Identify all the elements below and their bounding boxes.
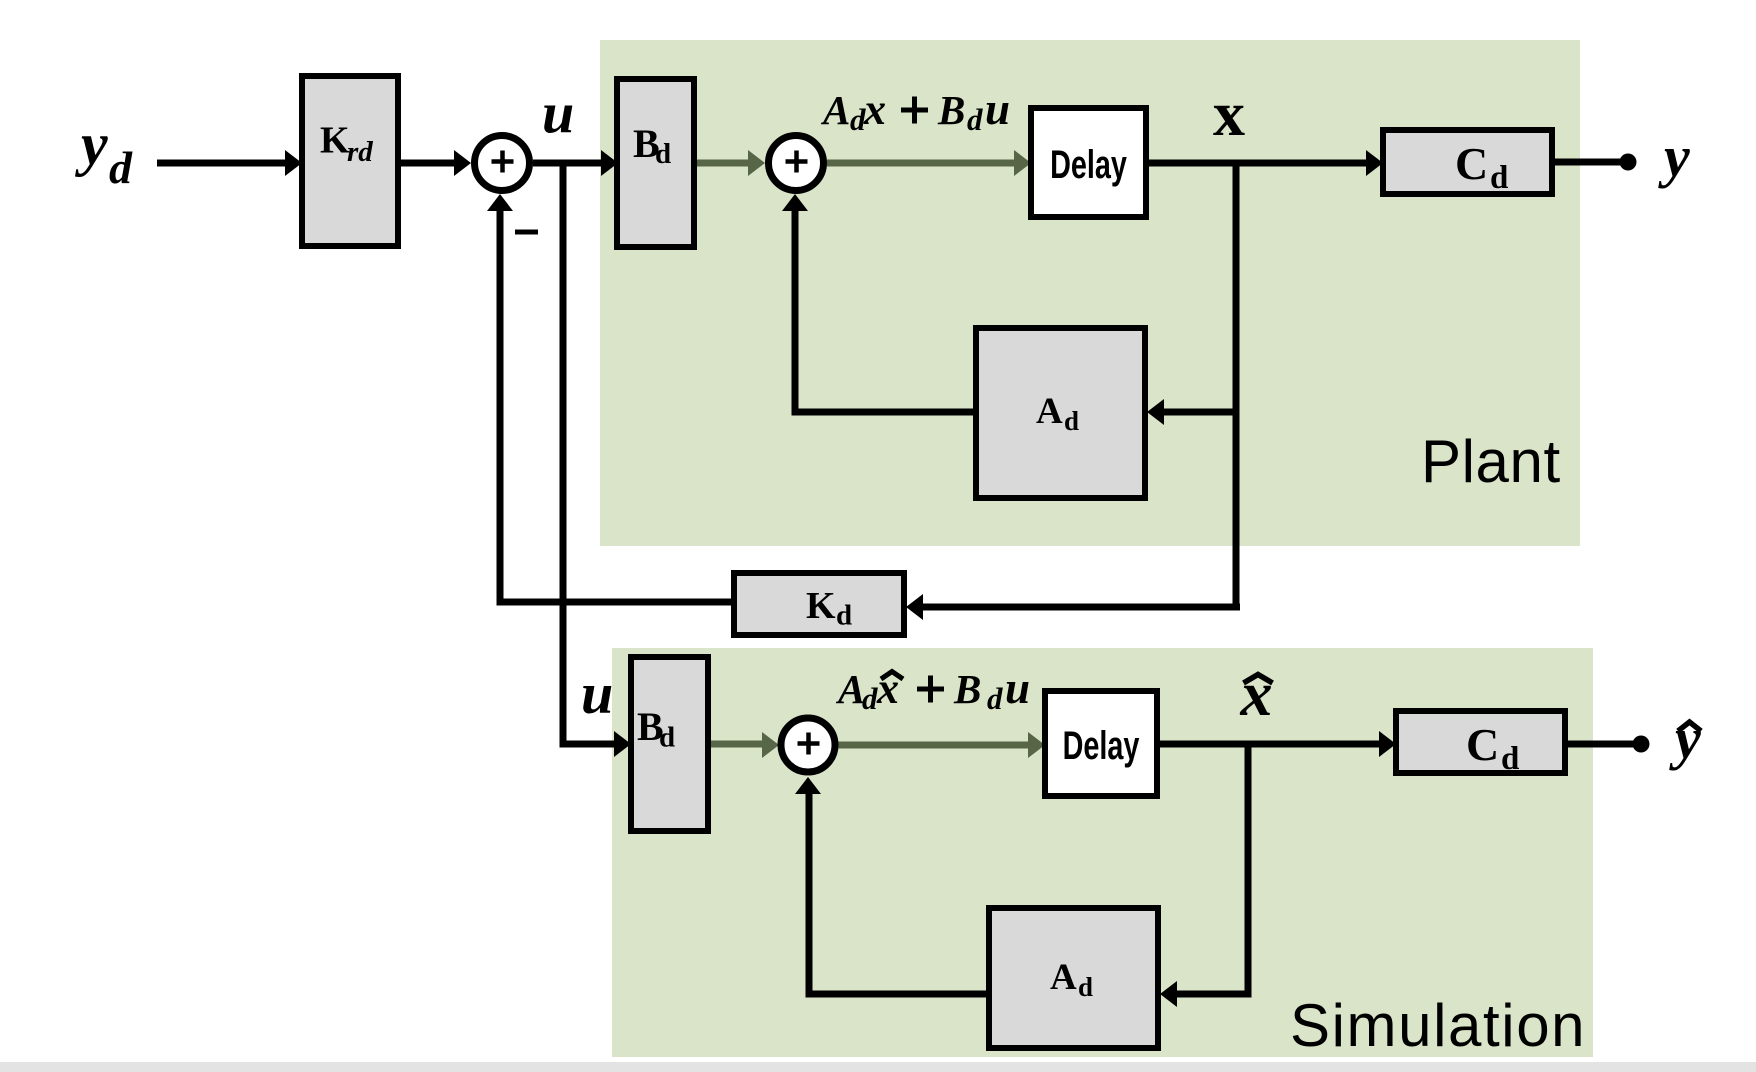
svg-text:B: B [953,666,981,712]
svg-text:A: A [820,87,850,133]
svg-text:d: d [862,681,878,716]
svg-text:Delay: Delay [1050,142,1127,187]
svg-text:Delay: Delay [1063,723,1140,768]
svg-text:d: d [1501,741,1519,777]
svg-text:d: d [1490,160,1508,196]
svg-text:A: A [1036,391,1063,432]
svg-text:C: C [1455,138,1488,189]
svg-text:Simulation: Simulation [1290,992,1586,1059]
svg-text:u: u [542,81,574,146]
svg-text:K: K [806,585,836,627]
svg-text:d: d [109,142,133,193]
svg-text:B: B [937,87,965,133]
svg-text:u: u [581,661,613,726]
svg-text:A: A [835,666,865,712]
svg-text:x: x [1213,78,1245,149]
svg-text:d: d [967,102,983,137]
svg-text:d: d [1078,972,1093,1002]
svg-text:x: x [1240,658,1273,729]
svg-text:rd: rd [347,136,373,168]
svg-text:u: u [985,84,1010,134]
svg-text:u: u [1005,663,1030,713]
svg-text:d: d [1064,406,1079,436]
svg-text:A: A [1050,957,1077,998]
svg-text:d: d [836,600,852,632]
svg-text:Plant: Plant [1421,428,1561,495]
svg-text:K: K [320,120,350,162]
svg-text:d: d [987,681,1003,716]
svg-text:d: d [655,138,671,170]
svg-text:C: C [1466,719,1499,770]
svg-text:d: d [659,722,675,754]
svg-text:x: x [863,85,886,134]
